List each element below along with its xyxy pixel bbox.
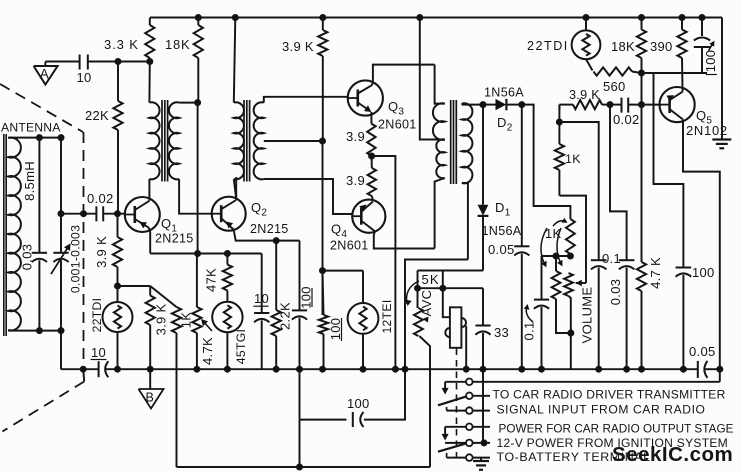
- svg-text:2N102: 2N102: [686, 123, 728, 138]
- resistor 3.9K IF: [282, 18, 327, 145]
- switch arm lower: [438, 443, 466, 457]
- svg-text:VOLUME: VOLUME: [580, 287, 595, 344]
- wire 3.9K feed row: [115, 283, 151, 289]
- transformer T2 primary: [234, 18, 244, 200]
- transistor Q3 2N601: [348, 80, 417, 131]
- relay coil vibrator: [443, 288, 469, 372]
- dashed boundary antenna upper diagonal: [0, 84, 83, 132]
- wire 22K to Q1 base: [117, 130, 119, 214]
- wire ground bus: [61, 368, 720, 370]
- wire emitter junction to ground rail: [372, 156, 399, 372]
- svg-text:2N215: 2N215: [250, 222, 289, 236]
- resistor 4.7K variable: [192, 254, 215, 370]
- transformer T3 secondary: [462, 103, 483, 259]
- wire Q2 emitter: [234, 230, 300, 244]
- svg-text:3.3 K: 3.3 K: [104, 37, 139, 52]
- switch arm upper: [438, 397, 466, 411]
- wire T2 tap to 12TEI branch: [320, 141, 326, 315]
- svg-text:10: 10: [91, 345, 106, 360]
- node detector input: [480, 102, 486, 108]
- svg-text:100: 100: [299, 286, 314, 309]
- svg-text:2N601: 2N601: [378, 118, 417, 132]
- wire Q1 emitter node row: [150, 251, 262, 257]
- svg-text:1N56A: 1N56A: [482, 224, 522, 238]
- svg-text:2N601: 2N601: [330, 239, 369, 253]
- svg-text:0.02: 0.02: [87, 191, 114, 206]
- svg-text:0.03: 0.03: [20, 244, 35, 271]
- resistor 22K: [85, 62, 123, 131]
- resistor 560: [586, 59, 642, 94]
- svg-text:0.03: 0.03: [608, 279, 623, 306]
- wire volume wiper: [559, 196, 586, 287]
- svg-text:8.5mH: 8.5mH: [22, 161, 37, 201]
- dashed boundary antenna lower diagonal: [2, 369, 84, 432]
- dashed boundary antenna vertical: [83, 132, 85, 364]
- svg-text:3.9 K: 3.9 K: [154, 304, 169, 336]
- svg-text:SeekIC.com: SeekIC.com: [612, 443, 733, 466]
- svg-text:100: 100: [347, 396, 370, 411]
- wire antenna bottom to ground bus: [58, 328, 64, 370]
- svg-text:560: 560: [603, 79, 626, 94]
- switch actuator arrow lower: [442, 427, 449, 441]
- capacitor 0.03 af: [608, 260, 634, 369]
- transistor Q4 2N601: [330, 200, 385, 253]
- svg-text:3.9 K: 3.9 K: [569, 88, 600, 102]
- svg-text:1K: 1K: [179, 312, 194, 329]
- capacitor 100 af coupling: [300, 369, 406, 467]
- transformer T1 secondary: [169, 102, 212, 213]
- svg-text:1N56A: 1N56A: [484, 85, 524, 99]
- resistor 3.3K: [104, 18, 154, 62]
- thermistor 12TEI: [348, 271, 394, 370]
- svg-text:AVC: AVC: [419, 290, 434, 317]
- capacitor 10 input coupling: [77, 55, 92, 86]
- thermistor 22TDI upper: [527, 18, 600, 60]
- resistor 3.9 upper: [346, 112, 376, 156]
- potentiometer 5K AVC: [406, 271, 440, 468]
- capacitor 0.05 output right: [689, 344, 716, 378]
- wire antenna node to 0.02 cap: [58, 211, 96, 217]
- resistor 3.9K Q1 bias: [94, 214, 122, 268]
- label ANTENNA: [1, 121, 61, 135]
- wire 12TEI branch: [323, 270, 364, 272]
- transistor Q1 2N215: [125, 197, 194, 246]
- svg-text:B: B: [146, 391, 155, 405]
- wire antenna coil bottom: [8, 328, 61, 334]
- wire 3.9K left leg: [556, 105, 562, 125]
- wire volume bottom: [570, 333, 572, 369]
- svg-text:22TDI: 22TDI: [527, 39, 569, 53]
- svg-text:3.9: 3.9: [346, 129, 365, 144]
- label to-battery terminal: [497, 450, 651, 464]
- resistor volume right half: [557, 228, 595, 343]
- wire T3 secondary bottom rail: [402, 260, 468, 373]
- svg-text:12TEI: 12TEI: [380, 299, 394, 333]
- wire Q3 collector to T3 top: [435, 65, 445, 104]
- wire relay feed rail: [415, 285, 484, 291]
- svg-text:10: 10: [254, 291, 269, 306]
- wire avc junction stub: [440, 271, 446, 292]
- svg-text:0.1: 0.1: [522, 322, 537, 341]
- svg-text:0.001-0.003: 0.001-0.003: [69, 225, 83, 293]
- node 3.9K 0.02 junction: [607, 102, 613, 108]
- svg-text:100: 100: [692, 265, 715, 280]
- svg-text:10: 10: [77, 70, 92, 85]
- wire 22TDI to ground bus: [117, 332, 119, 369]
- capacitor 0.02 Q1 input: [87, 191, 114, 221]
- switch contact 1: [466, 379, 473, 386]
- wire Q3 collector: [372, 65, 435, 86]
- wire node A to coupling cap: [45, 61, 79, 63]
- ground battery terminal: [473, 458, 489, 470]
- thermistor 45TGI: [212, 291, 248, 365]
- wire detector node to 0.1: [559, 122, 598, 260]
- capacitor 0.02 Q5 coupling: [610, 98, 660, 127]
- svg-text:A: A: [40, 67, 49, 82]
- svg-text:0.02: 0.02: [613, 112, 640, 127]
- resistor 1K emitter: [150, 286, 193, 467]
- label 12-v power from ignition system: [497, 436, 729, 450]
- transformer T2 core: [244, 100, 250, 182]
- svg-text:2N215: 2N215: [155, 232, 194, 246]
- label to car radio driver transmitter: [493, 388, 726, 402]
- resistor 47K: [204, 254, 233, 293]
- wire D2 node down: [521, 105, 523, 246]
- transformer T3 primary: [433, 103, 445, 248]
- svg-text:22K: 22K: [85, 108, 109, 123]
- switch contact 3: [447, 407, 490, 414]
- resistor volume left half: [541, 228, 571, 333]
- capacitor 100 output: [676, 265, 715, 369]
- wire 0.02 to Q1 base: [104, 211, 125, 217]
- thermistor 22TDI lower: [90, 267, 133, 332]
- svg-text:TO CAR RADIO DRIVER TRANSMITTE: TO CAR RADIO DRIVER TRANSMITTER: [493, 388, 726, 402]
- switch contact 2: [466, 393, 490, 400]
- transformer T1 core: [162, 100, 168, 182]
- potentiometer 1K delayed agc: [545, 218, 575, 256]
- wire avc takeoff down: [654, 73, 684, 267]
- wire bottom return rail: [177, 464, 431, 470]
- switch actuator arrow upper: [442, 382, 449, 395]
- svg-text:100: 100: [328, 318, 343, 341]
- node top bus junction dots: [195, 15, 705, 21]
- svg-text:3.9 K: 3.9 K: [282, 39, 314, 54]
- capacitor 100 variable feedback: [694, 18, 718, 75]
- svg-text:SIGNAL INPUT FROM CAR RADIO: SIGNAL INPUT FROM CAR RADIO: [497, 402, 706, 416]
- svg-text:390: 390: [650, 39, 673, 54]
- diode D2 1N56A: [483, 85, 524, 133]
- svg-text:ANTENNA: ANTENNA: [1, 121, 61, 135]
- wire Q4 bottom to rail: [374, 231, 435, 248]
- wire Q5 emitter: [683, 119, 720, 369]
- capacitor 10 bypass: [254, 254, 270, 370]
- wire D2 to volume top: [522, 105, 571, 219]
- node D2 output: [519, 102, 525, 108]
- svg-text:4.7K: 4.7K: [200, 337, 215, 365]
- resistor 2.2K: [272, 241, 293, 370]
- node B terminal triangle: [139, 369, 164, 408]
- wire Q5 collector: [682, 58, 684, 92]
- diode D1 1N56A: [478, 105, 522, 271]
- resistor 18K Q2 bias: [165, 18, 203, 106]
- transistor Q2 2N215: [212, 197, 289, 236]
- svg-text:4.7 K: 4.7 K: [648, 257, 663, 289]
- capacitor 0.03 antenna: [20, 138, 48, 331]
- node ground bus dots: [80, 366, 723, 372]
- wire volume top row: [542, 253, 574, 259]
- svg-text:0.05: 0.05: [488, 242, 515, 257]
- capacitor 100 emitter: [292, 241, 314, 420]
- resistor 3.9K detector out: [559, 88, 610, 110]
- transformer T1 primary: [149, 62, 159, 201]
- resistor 4.7K output: [637, 105, 663, 370]
- capacitor 0.001-0.003 variable tuning: [51, 138, 83, 331]
- label signal input from car radio: [497, 402, 706, 416]
- switch contact 5: [445, 440, 490, 447]
- svg-text:0.05: 0.05: [689, 344, 716, 359]
- dashed relay actuator link: [456, 349, 458, 458]
- wire Q1 emitter: [149, 228, 151, 254]
- svg-text:0.1: 0.1: [602, 251, 621, 266]
- transformer T2 secondary: [254, 97, 353, 214]
- wire avc top rail: [418, 270, 484, 272]
- wire d1 node to contact: [482, 369, 484, 443]
- svg-text:100: 100: [703, 50, 718, 73]
- label power for car radio output stage: [499, 422, 734, 435]
- svg-text:3.9 K: 3.9 K: [94, 236, 109, 268]
- wire coupling cap to 22K and 3.3K: [88, 59, 153, 65]
- resistor 100 t2 branch: [319, 271, 343, 370]
- capacitor 0.1 trimmer volume: [522, 256, 550, 369]
- wire terminal bus lower: [445, 369, 720, 382]
- ground top right: [712, 140, 731, 149]
- svg-text:2.2K: 2.2K: [278, 302, 293, 330]
- wire antenna coil top: [8, 135, 64, 141]
- transformer T3 core: [451, 100, 457, 184]
- wire top supply bus: [150, 18, 722, 140]
- capacitor 10 ground isolation: [91, 345, 109, 377]
- wire supply to T3 center tap: [420, 18, 445, 140]
- resistor 390: [650, 18, 687, 89]
- resistor 3.9K second: [146, 286, 169, 369]
- wire 0.02 junction down: [610, 105, 627, 260]
- wire 18K junction down to 47K row: [197, 103, 199, 254]
- resistor 1K detector load: [555, 122, 581, 196]
- resistor 18K Q5 bias: [611, 18, 646, 108]
- svg-text:POWER FOR CAR RADIO OUTPUT STA: POWER FOR CAR RADIO OUTPUT STAGE: [499, 422, 734, 435]
- capacitor 0.1 af: [591, 251, 621, 369]
- node Q3 Q4 emitter junction: [369, 153, 375, 159]
- node A terminal triangle: [34, 62, 58, 85]
- svg-text:22TDI: 22TDI: [90, 298, 104, 333]
- svg-text:1K: 1K: [565, 152, 581, 166]
- svg-text:33: 33: [494, 325, 509, 340]
- svg-text:47K: 47K: [204, 268, 219, 292]
- wire Q2 collector to T2: [235, 177, 237, 200]
- wire 45TGI to ground bus: [226, 332, 228, 369]
- svg-text:18K: 18K: [165, 37, 191, 52]
- svg-text:18K: 18K: [611, 39, 635, 54]
- inductor 8.5mH antenna coil: [4, 134, 37, 336]
- svg-text:5K: 5K: [422, 272, 440, 287]
- switch contact 6: [447, 454, 490, 461]
- wire Q5 base bias node: [642, 72, 708, 74]
- svg-text:3.9: 3.9: [346, 173, 365, 188]
- capacitor 33 buffer: [475, 288, 509, 369]
- capacitor 0.05 agc: [488, 242, 529, 369]
- transistor Q5 2N102: [660, 87, 728, 138]
- watermark: [612, 443, 733, 466]
- svg-text:45TGI: 45TGI: [234, 329, 248, 364]
- resistor 3.9 lower: [346, 156, 376, 200]
- switch contact 4: [445, 424, 490, 431]
